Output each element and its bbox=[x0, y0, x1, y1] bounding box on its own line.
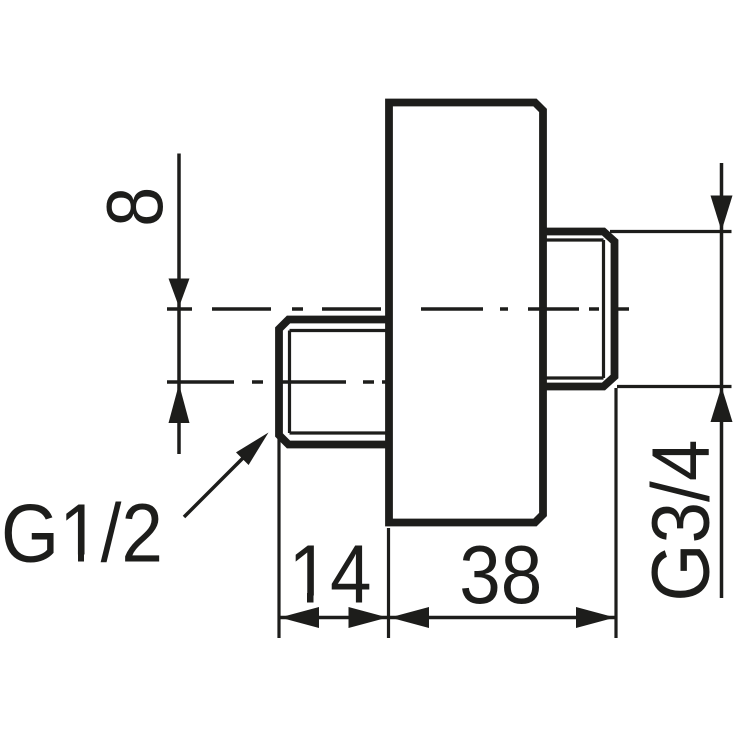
svg-text:G3/4: G3/4 bbox=[635, 440, 726, 602]
G3/4 dim line bbox=[720, 163, 724, 598]
left stub G1/2 outline bbox=[279, 320, 389, 445]
extension line stub top bbox=[610, 230, 732, 233]
left stub thread line bottom bbox=[290, 431, 390, 434]
extension line stub bottom bbox=[617, 385, 732, 388]
right stub thread line top bbox=[547, 238, 604, 241]
arrow 14 left bbox=[280, 607, 319, 628]
arrow G3/4 down bbox=[711, 196, 733, 232]
remove foot serif of digit 1 in 14 bbox=[292, 596, 327, 605]
arrow leader G1/2 bbox=[236, 433, 269, 466]
svg-text:G1/2: G1/2 bbox=[1, 487, 163, 580]
arrow G3/4 up bbox=[711, 387, 733, 423]
remove foot serif of digit 1 in G1/2 bbox=[64, 555, 99, 565]
arrow 14 right bbox=[349, 607, 388, 628]
dimension line 38 bbox=[389, 616, 617, 620]
centerline upper axis bbox=[167, 307, 629, 311]
leader line G1/2 bbox=[184, 458, 243, 517]
svg-text:8: 8 bbox=[90, 187, 179, 227]
arrow 38 right bbox=[576, 607, 615, 628]
dimension line 8 vertical bbox=[177, 154, 181, 455]
arrow 8 up bbox=[169, 384, 190, 423]
extension line left stub end bbox=[277, 437, 280, 638]
body outline bbox=[389, 103, 543, 523]
left stub thread end line bbox=[288, 331, 291, 434]
arrow 38 left bbox=[390, 607, 429, 628]
extension line body left bbox=[387, 528, 390, 638]
svg-text:14: 14 bbox=[289, 528, 372, 621]
arrow 8 down bbox=[169, 279, 190, 308]
right stub thread line bottom bbox=[547, 376, 604, 379]
dimension line 14 bbox=[279, 616, 389, 620]
svg-text:38: 38 bbox=[459, 528, 542, 621]
right stub G3/4 outline bbox=[543, 232, 615, 387]
left stub thread line top bbox=[290, 329, 390, 332]
extension line right stub end bbox=[614, 388, 617, 638]
right stub thread end line bbox=[602, 240, 605, 378]
centerline lower axis bbox=[167, 380, 390, 384]
